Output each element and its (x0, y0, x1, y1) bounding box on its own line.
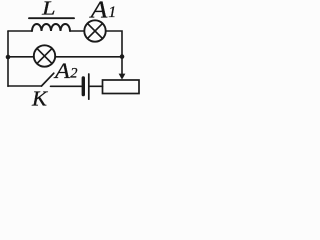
rheostat R body (103, 80, 140, 94)
inductor L coil (32, 24, 70, 31)
wire lamp A1 to top-right corner, down to junction (106, 31, 122, 57)
svg-text:2: 2 (70, 66, 77, 82)
rheostat wiper stem (121, 57, 123, 75)
lamp A1 (84, 20, 105, 41)
svg-text:1: 1 (108, 4, 116, 21)
wire bottom-left segment (8, 85, 42, 87)
wire switch contact to battery (51, 85, 82, 87)
svg-text:K: K (31, 87, 48, 111)
inductor core bar (29, 17, 74, 19)
svg-text:L: L (41, 0, 56, 20)
wire top-left segment (8, 30, 32, 32)
battery positive plate (long thin) (88, 74, 90, 99)
lamp A2 (34, 45, 55, 66)
wire coil to lamp A1 (70, 30, 84, 32)
wire middle branch right (55, 56, 122, 58)
node junction right (120, 54, 125, 59)
battery negative plate (short thick) (82, 78, 85, 95)
rheostat wiper arrowhead (119, 74, 126, 80)
svg-text:A: A (89, 0, 108, 24)
wire battery to rheostat (90, 85, 103, 87)
wire middle branch left (8, 56, 34, 58)
node junction left (6, 55, 11, 60)
switch K blade (open) (42, 73, 54, 86)
svg-text:A: A (53, 58, 70, 83)
wire left vertical (7, 31, 9, 86)
